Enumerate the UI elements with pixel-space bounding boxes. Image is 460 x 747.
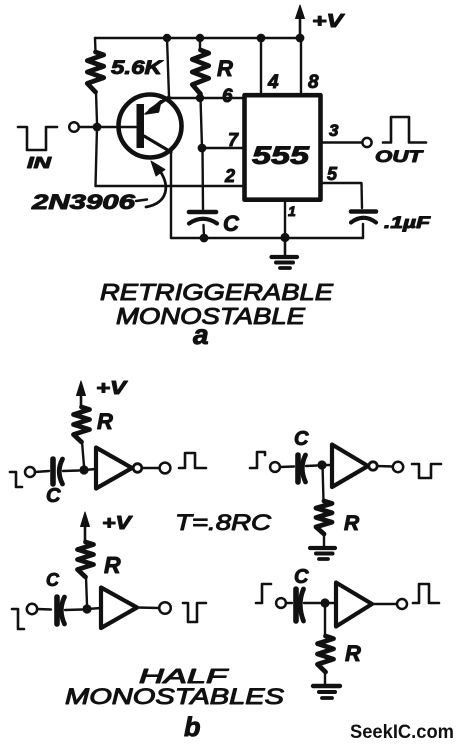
wire bubble to output (circuit 2) xyxy=(377,465,393,468)
svg-text:RETRIGGERABLE: RETRIGGERABLE xyxy=(100,279,334,305)
svg-text:+V: +V xyxy=(102,513,134,533)
wire ground bus xyxy=(171,237,363,239)
wire pin 8 xyxy=(300,38,302,93)
wire input to C (circuit 1) xyxy=(35,471,49,472)
node dot (circuit 3) xyxy=(82,604,91,613)
resistor R (circuit 1) xyxy=(74,407,90,466)
capacitor C (circuit 2) xyxy=(298,455,317,482)
pointer line 2N3906 xyxy=(136,200,147,202)
node dot C-ground xyxy=(200,234,209,243)
svg-text:C: C xyxy=(46,485,61,507)
svg-text:a: a xyxy=(193,319,209,350)
power +V arrow (circuit 1) xyxy=(77,381,86,407)
terminal output (circuit 3) xyxy=(159,602,171,614)
inverter U4 (circuit 3) xyxy=(101,588,137,629)
svg-text:+V: +V xyxy=(96,378,129,398)
ground (circuit 4) xyxy=(313,686,340,698)
svg-text:MONOSTABLES: MONOSTABLES xyxy=(65,684,284,709)
waveform output negative pulse (circuit 2) xyxy=(412,464,441,478)
terminal input (circuit 2) xyxy=(270,462,280,472)
waveform input falling edge (circuit 1) xyxy=(10,472,22,487)
wire node to inverter (circuit 2) xyxy=(322,464,332,466)
wire node to inverter (circuit 1) xyxy=(84,469,96,470)
waveform input rising edge (circuit 2) xyxy=(250,452,265,468)
wire to pin 6 xyxy=(169,97,242,99)
svg-text:R: R xyxy=(97,409,113,434)
wire input to C (circuit 2) xyxy=(280,465,294,468)
resistor R (circuit 3) xyxy=(78,542,94,605)
capacitor C (circuit 4) xyxy=(296,589,320,621)
node dot rail-pin8 xyxy=(296,34,305,43)
terminal output (open circle) xyxy=(362,138,371,147)
svg-text:1: 1 xyxy=(288,203,296,219)
IC U1 555 xyxy=(245,95,321,200)
svg-text:6: 6 xyxy=(222,86,233,107)
svg-text:5: 5 xyxy=(327,164,338,184)
node dot base junction xyxy=(93,123,102,132)
waveform output positive pulse xyxy=(383,117,426,143)
svg-text:C: C xyxy=(294,428,309,450)
svg-text:SeekIC.com: SeekIC.com xyxy=(350,722,454,743)
svg-text:2: 2 xyxy=(224,166,235,186)
wire input to C (circuit 4) xyxy=(286,602,292,604)
terminal output (circuit 4) xyxy=(397,599,407,609)
terminal output (circuit 2) xyxy=(393,462,403,472)
wire node to inverter (circuit 3) xyxy=(87,608,101,609)
wire emitter to rail xyxy=(167,38,169,97)
resistor R (circuit 4) xyxy=(318,636,334,685)
svg-text:C: C xyxy=(294,566,309,588)
svg-text:C: C xyxy=(223,211,240,236)
node dot rail-emitter xyxy=(163,34,171,42)
resistor 5.6K xyxy=(87,38,103,123)
node dot rail-R xyxy=(196,34,204,42)
svg-text:3: 3 xyxy=(329,121,339,140)
svg-text:MONOSTABLE: MONOSTABLE xyxy=(116,303,306,329)
wire bubble to output (circuit 1) xyxy=(142,467,160,469)
svg-text:8: 8 xyxy=(308,72,319,93)
transistor Q1 2N3906 xyxy=(119,95,182,158)
wire to pin 2 xyxy=(96,185,243,187)
wire +V rail xyxy=(95,37,300,39)
svg-text:+V: +V xyxy=(312,11,346,31)
wire input to C (circuit 3) xyxy=(37,608,51,611)
node dot (circuit 1) xyxy=(79,465,88,474)
terminal input (open circle) xyxy=(69,122,79,132)
wire node to inverter (circuit 4) xyxy=(325,602,336,604)
waveform input rising edge (circuit 4) xyxy=(256,584,271,603)
svg-text:R: R xyxy=(104,552,121,578)
svg-text:C: C xyxy=(46,570,60,590)
svg-text:R: R xyxy=(345,641,361,666)
wire to pin 7 xyxy=(202,147,242,149)
capacitor C (circuit 1) xyxy=(53,459,79,484)
node dot (circuit 4) xyxy=(320,598,329,607)
wire inverter to output (circuit 3) xyxy=(137,606,159,609)
node dot rail-pin4 xyxy=(257,34,266,43)
wire node to capacitor C xyxy=(201,148,204,209)
wire pin 4 xyxy=(260,38,262,93)
terminal output (circuit 1) xyxy=(160,463,171,474)
svg-text:7: 7 xyxy=(228,130,239,150)
wire pin 5 xyxy=(323,183,363,208)
pointer arrow 2N3906 xyxy=(146,161,166,207)
terminal input (circuit 4) xyxy=(276,598,286,608)
node dot pin7-C xyxy=(198,144,207,153)
resistor R (555 timing) xyxy=(192,38,208,99)
inverter U2 (circuit 1) xyxy=(96,448,132,489)
capacitor C (circuit 3) xyxy=(57,597,82,624)
ground (circuit 2) xyxy=(310,548,335,559)
svg-text:.1µF: .1µF xyxy=(384,213,431,232)
capacitor C (timing) xyxy=(189,212,217,238)
waveform output positive pulse (circuit 4) xyxy=(413,584,439,603)
wire pin 3 output xyxy=(323,141,363,143)
svg-text:IN: IN xyxy=(27,155,52,172)
node dot pin6-R xyxy=(196,94,204,102)
wire node to R (circuit 4) xyxy=(324,603,326,636)
bubble (circuit 2) xyxy=(369,462,377,470)
svg-text:R: R xyxy=(344,512,360,535)
bubble (circuit 1) xyxy=(133,464,142,473)
inverter U5 (circuit 4) xyxy=(336,583,372,627)
waveform output positive pulse (circuit 1) xyxy=(179,453,206,468)
waveform input negative pulse xyxy=(18,127,57,150)
svg-text:T=.8RC: T=.8RC xyxy=(175,510,271,535)
wire base junction down xyxy=(96,127,98,186)
waveform input falling edge (circuit 3) xyxy=(12,609,24,629)
node dot pin1-ground xyxy=(280,233,289,242)
wire R to pin7 node xyxy=(201,98,203,148)
wire pin 1 xyxy=(284,202,286,238)
power +V arrow (circuit 3) xyxy=(81,512,90,542)
inverter U3 (circuit 2) xyxy=(332,445,368,488)
wire node to R (circuit 2) xyxy=(323,465,324,501)
svg-text:4: 4 xyxy=(267,72,279,93)
wire base input xyxy=(79,126,136,128)
ground (main) xyxy=(272,238,298,269)
resistor R (circuit 2) xyxy=(316,501,332,547)
capacitor .1uF xyxy=(351,212,376,239)
terminal input (circuit 1) xyxy=(25,467,35,477)
node dot (circuit 2) xyxy=(317,460,326,469)
svg-text:R: R xyxy=(217,56,233,81)
waveform output negative pulse (circuit 3) xyxy=(183,603,206,622)
power +V arrow xyxy=(296,5,305,36)
svg-text:555: 555 xyxy=(252,142,310,170)
terminal input (circuit 3) xyxy=(27,604,37,614)
svg-text:2N3906: 2N3906 xyxy=(31,191,136,214)
wire inverter to output (circuit 4) xyxy=(372,603,397,605)
wire collector down xyxy=(170,152,172,238)
svg-text:OUT: OUT xyxy=(375,147,424,166)
svg-text:b: b xyxy=(184,712,201,742)
svg-text:5.6K: 5.6K xyxy=(111,58,164,79)
